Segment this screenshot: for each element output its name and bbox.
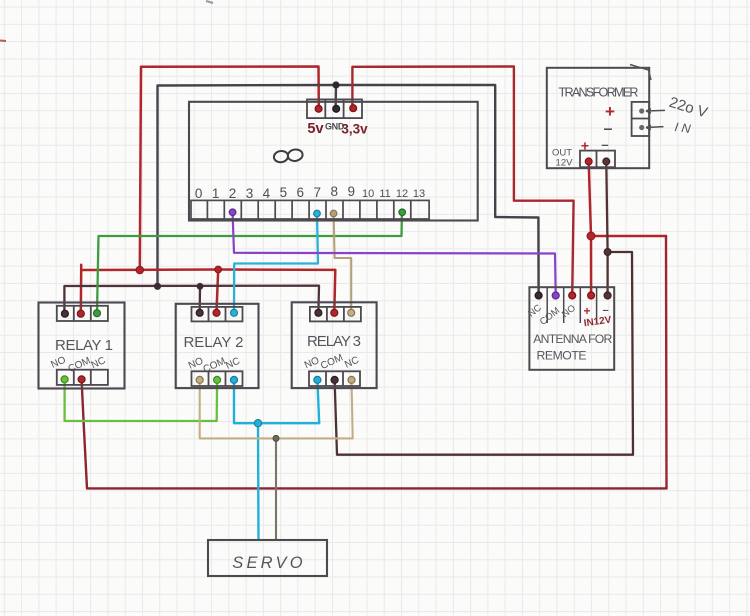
- svg-text:+: +: [605, 102, 615, 121]
- svg-text:11: 11: [379, 188, 390, 200]
- relay 3 box: [292, 302, 377, 388]
- wire: GND black right branch to antenna NC pin: [336, 85, 539, 296]
- wire: dark maroon bus above relays relay1-relay3: [64, 286, 319, 314]
- antenna for remote box: [529, 287, 614, 370]
- node: dark bus x relay2 junction: [197, 283, 204, 290]
- relay 2 bottom pin NO (tan): [196, 376, 203, 383]
- node: transformer - branch junction: [604, 249, 611, 256]
- node: tan/gray servo junction: [273, 435, 279, 441]
- svg-text:5v: 5v: [307, 121, 323, 137]
- arduino board outline: [189, 102, 478, 221]
- relay 2 top pin 1 (dark): [196, 309, 203, 316]
- wire: dark maroon from transformer - output to antenna - pin: [606, 162, 607, 296]
- transformer box: [547, 68, 649, 168]
- svg-text:7: 7: [314, 185, 322, 200]
- arrow to 220V bottom pin: [646, 125, 664, 129]
- svg-text:8: 8: [330, 184, 338, 199]
- wire: red bus above relays (with left end tick): [81, 265, 335, 270]
- relay 1 top connector: [57, 306, 108, 321]
- relay 1 top pin 3 (green): [94, 310, 101, 317]
- stray red mark at left edge: [0, 40, 6, 43]
- svg-text:5: 5: [280, 185, 288, 200]
- relay 2 bottom connector: [192, 371, 243, 386]
- wire: 5V red from arduino 5V pin up-left-down to red bus junction: [140, 67, 319, 271]
- antenna pin +: [588, 292, 595, 299]
- relay 1 bottom pin NO (green): [61, 376, 68, 383]
- relay 2 bottom pin COM (green): [214, 376, 221, 383]
- wire: red bus drop to relay3 middle pin: [334, 270, 335, 312]
- transformer input pin top: [639, 108, 644, 113]
- antenna pin -: [604, 292, 611, 299]
- infinity logo: [273, 148, 303, 163]
- wire: green from arduino pin12 to relay1 third pin: [97, 213, 402, 313]
- relay 1 bottom connector: [57, 370, 108, 385]
- wire: purple from arduino pin2 to antenna COM pin: [233, 214, 556, 296]
- relay 3 top pin 1 (dark): [315, 309, 322, 316]
- svg-text:3,3v: 3,3v: [341, 122, 368, 137]
- antenna pin NC: [535, 292, 542, 299]
- svg-text:12: 12: [396, 188, 408, 200]
- svg-text:I N: I N: [674, 120, 693, 136]
- svg-text:–: –: [601, 137, 608, 152]
- pin 8 dot (tan): [330, 210, 337, 217]
- relay 2 top pin 3 (cyan): [231, 309, 238, 316]
- relay 3 top pin 2 (red): [331, 309, 338, 316]
- antenna pin COM: [552, 292, 559, 299]
- relay 3 bottom pin NC (tan): [348, 376, 355, 383]
- wire: crimson right-side loop down to bottom: [665, 236, 668, 488]
- svg-text:+: +: [581, 138, 589, 154]
- relay 1 box: [39, 303, 125, 389]
- pin 3.3V: [350, 105, 357, 112]
- svg-text:TRANSFORMER: TRANSFORMER: [559, 86, 639, 100]
- relay 2 top connector: [192, 307, 243, 322]
- svg-text:RELAY 3: RELAY 3: [307, 333, 361, 350]
- wire: tan relay2 NO bottom to relay3 NC bottom: [200, 380, 353, 438]
- svg-text:+: +: [583, 304, 590, 318]
- pin 2 dot (purple): [229, 209, 236, 216]
- relay 1 bottom pin COM (crimson): [78, 376, 85, 383]
- svg-text:10: 10: [362, 188, 374, 200]
- wire: dark bus drop to relay2 first pin: [199, 286, 202, 312]
- relay 3 top pin 3 (tan): [348, 309, 355, 316]
- wire: cyan drop to servo: [257, 423, 260, 540]
- wire: cyan from arduino pin7 to relay2 third pin: [234, 214, 318, 312]
- relay 2 bottom pin NC (cyan): [231, 376, 238, 383]
- wire: dark maroon branch loop to relay3 COM bottom pin: [335, 252, 633, 455]
- antenna pin NO: [569, 292, 576, 299]
- transformer output + pin: [585, 158, 592, 165]
- wire: red branch right from + junction: [591, 235, 666, 238]
- servo box: [208, 540, 327, 576]
- relay 2 box: [176, 304, 259, 388]
- relay 1 top pin 1 (dark): [61, 310, 68, 317]
- svg-text:13: 13: [413, 188, 425, 200]
- pin GND: [333, 105, 340, 112]
- wire: light green relay1 NO bottom to relay2 COM bottom: [65, 380, 218, 421]
- node: cyan servo junction: [254, 420, 261, 427]
- transformer 220V input connector: [632, 102, 650, 136]
- relay 2 top pin 2 (red): [213, 309, 220, 316]
- transformer output connector: [580, 151, 615, 168]
- svg-text:ANTENNA FOR: ANTENNA FOR: [533, 332, 612, 346]
- arduino digital pin strip: [191, 200, 429, 219]
- wire: cyan relay2 NC bottom to relay3 NO bottom: [234, 380, 319, 423]
- transformer output - pin: [603, 158, 610, 165]
- arrow to 220V top pin: [646, 109, 665, 113]
- pin numbers 0-13: [195, 184, 425, 201]
- node: dark bus x GND junction: [154, 283, 161, 290]
- wire: red bus drop to relay2 middle pin: [217, 270, 219, 313]
- svg-text:0: 0: [195, 186, 203, 201]
- relay 1 top pin 2 (red): [77, 310, 84, 317]
- svg-text:4: 4: [263, 186, 271, 201]
- transformer input pin bottom: [639, 125, 644, 130]
- svg-text:RELAY 2: RELAY 2: [184, 334, 244, 351]
- relay 3 bottom pin COM (dark): [331, 376, 338, 383]
- relay 3 bottom pin NO (cyan): [314, 376, 321, 383]
- svg-text:12V: 12V: [556, 158, 574, 169]
- svg-text:SERVO: SERVO: [232, 554, 305, 572]
- wire: tan from arduino pin8 to relay3 third pin: [334, 214, 352, 312]
- node: GND top junction: [332, 81, 339, 88]
- arduino top power connector: [307, 99, 362, 118]
- node: transformer + branch junction: [587, 232, 595, 240]
- svg-text:9: 9: [347, 184, 355, 199]
- node: red bus x 5V junction: [136, 266, 144, 274]
- wire: red from transformer + output to antenna + pin: [589, 162, 591, 296]
- antenna connector cell dividers: [547, 287, 596, 323]
- svg-text:REMOTE: REMOTE: [537, 349, 587, 363]
- wire: 3.3V red to antenna NO pin: [352, 67, 573, 296]
- pin 12 dot (green): [399, 209, 406, 216]
- wire: gray drop to servo: [275, 438, 277, 540]
- svg-text:6: 6: [297, 185, 305, 200]
- svg-text:3: 3: [246, 186, 254, 201]
- relay 3 top connector: [310, 307, 361, 322]
- node: red bus x relay2 junction: [215, 266, 222, 273]
- pin 5V: [315, 105, 322, 112]
- svg-text:–: –: [604, 121, 613, 138]
- svg-text:1: 1: [212, 186, 220, 201]
- svg-text:RELAY 1: RELAY 1: [55, 337, 113, 354]
- wire: crimson bottom run to relay1 COM bottom pin: [82, 380, 667, 488]
- stray pencil mark at top edge: [206, 1, 213, 3]
- wire: red bus drop to relay1 COM-top pin: [80, 270, 83, 314]
- wire: GND black left branch down to dark bus: [158, 85, 337, 286]
- pin 7 dot (cyan): [314, 210, 321, 217]
- relay 3 bottom connector: [309, 371, 360, 386]
- svg-text:2: 2: [229, 186, 237, 201]
- wire: GND black riser from GND pin to top node: [334, 85, 337, 109]
- transformer corner tick: [630, 65, 651, 81]
